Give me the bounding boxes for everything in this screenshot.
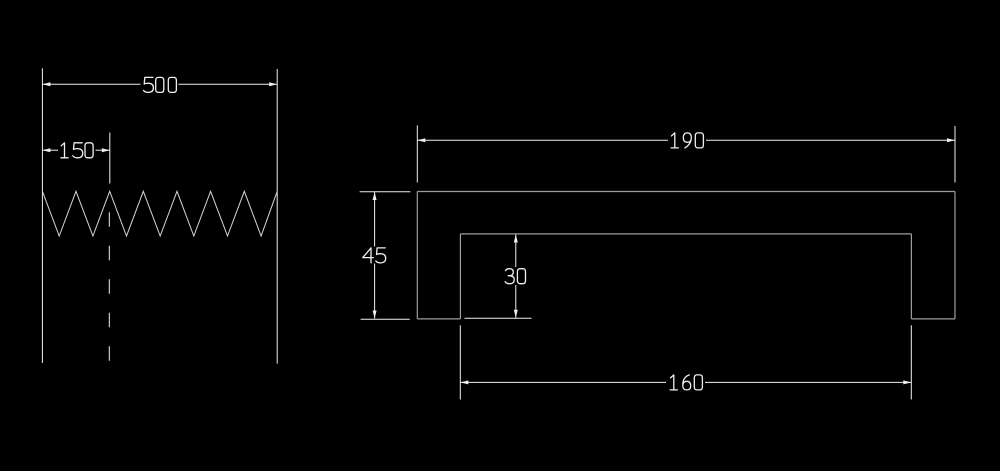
dimension 30: dimension line — [515, 235, 517, 318]
dimension 45: extension lines — [360, 192, 411, 319]
left view: dashed centerline — [108, 212, 110, 361]
dimension 160: extension lines — [460, 325, 911, 399]
dimension 30: value label "30" — [505, 269, 525, 284]
dimension 45: arrowheads — [373, 192, 377, 319]
dimension 30: arrowheads — [514, 235, 518, 318]
dimension 150: extension line — [109, 133, 111, 184]
dimension 160: dimension line — [460, 381, 911, 383]
dimension 500: arrowheads — [42, 82, 277, 86]
left view: extension line right edge — [276, 69, 278, 364]
dimension 150: arrowheads — [42, 148, 109, 152]
dimension 190: arrowheads — [417, 138, 955, 142]
dimension 150: dimension line — [42, 149, 109, 151]
right view: channel profile outline — [417, 192, 955, 319]
left view: extension line left edge — [41, 68, 43, 363]
dimension 160: arrowheads — [460, 380, 911, 384]
dimension 190: value label "190" — [671, 133, 703, 148]
dimension 500: value label "500" — [144, 77, 177, 92]
dimension 30: extension line — [465, 317, 532, 319]
dimension 45: dimension line — [374, 192, 376, 319]
dimension 45: value label "45" — [363, 248, 386, 263]
dimension 190: extension lines — [417, 125, 955, 182]
dimension 190: dimension line — [417, 139, 955, 141]
dimension 500: dimension line — [42, 83, 277, 85]
dimension 150: value label "150" — [61, 143, 93, 158]
dimension 160: value label "160" — [670, 375, 702, 390]
left view: zigzag serration line — [42, 191, 277, 236]
